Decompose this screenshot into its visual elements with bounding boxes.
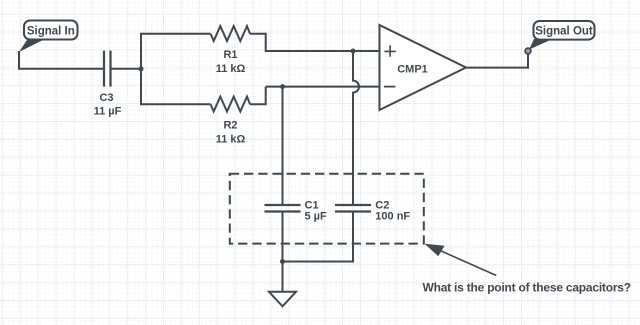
wire op-amp output to Signal Out — [466, 51, 528, 68]
capacitor C2 — [335, 205, 371, 212]
annotation dashed box around C1 C2 — [230, 174, 424, 244]
wire junction A to R2 — [141, 69, 211, 104]
svg-text:100 nF: 100 nF — [375, 211, 410, 223]
svg-text:C3: C3 — [99, 92, 113, 104]
capacitor C3 — [104, 51, 111, 87]
wire C2 bottom to ground net — [283, 212, 354, 262]
wire C2 branch with hop over - wire — [353, 51, 359, 205]
pin - symbol — [384, 86, 395, 88]
junction C (- input net to C1) — [280, 84, 285, 89]
wire junction A to R1 — [141, 34, 211, 69]
wire input from Signal In — [19, 51, 103, 69]
svg-text:5 µF: 5 µF — [305, 211, 328, 223]
wire C1 bottom to ground — [282, 212, 284, 292]
wire R2 to op-amp - input — [250, 87, 380, 105]
ground — [269, 292, 296, 307]
svg-text:R1: R1 — [223, 49, 237, 61]
resistor R2 — [211, 97, 250, 112]
junction A (after C3) — [139, 66, 144, 71]
wire C1 branch — [282, 87, 284, 205]
junction D (ground net) — [280, 259, 285, 264]
node Signal Out flag — [525, 21, 594, 54]
svg-text:11 kΩ: 11 kΩ — [216, 63, 246, 75]
svg-text:11 kΩ: 11 kΩ — [216, 134, 246, 146]
op-amp U1 CMP1 — [380, 25, 467, 110]
capacitor C1 — [265, 205, 301, 212]
svg-text:What is the point of these cap: What is the point of these capacitors? — [423, 281, 631, 295]
resistor R1 — [211, 26, 250, 41]
pin + symbol — [384, 45, 395, 57]
wire C3 to junction A — [111, 68, 142, 70]
svg-text:Signal In: Signal In — [27, 26, 75, 38]
annotation arrow to dashed box — [425, 244, 497, 276]
svg-text:11 µF: 11 µF — [94, 106, 122, 118]
svg-text:CMP1: CMP1 — [397, 64, 428, 76]
svg-text:Signal Out: Signal Out — [535, 26, 593, 38]
node Signal In flag — [19, 21, 78, 53]
svg-text:R2: R2 — [223, 120, 237, 132]
junction B (+ input net to C2) — [351, 49, 356, 54]
wire R1 to op-amp + input — [250, 34, 380, 51]
